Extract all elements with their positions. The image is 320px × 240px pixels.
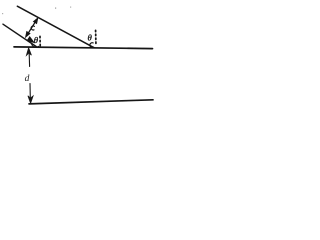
svg-text:d: d [25, 74, 30, 84]
noise speck 2 [70, 7, 71, 8]
arrowhead down of wavefront arrow [26, 32, 30, 37]
surface line S2 (bottom horizontal) [29, 100, 153, 104]
normal N2 (dotted) at right hit point [95, 30, 97, 43]
noise speck 1 [55, 8, 56, 9]
angle arc at right hit point [90, 43, 94, 48]
wavefront double arrow (perpendicular between rays) [27, 21, 36, 35]
dimension arrow d: lower arrowhead [28, 96, 33, 104]
surface line S1 (top horizontal) [14, 47, 153, 49]
angle arc at left hit point [31, 43, 38, 47]
svg-text:θ: θ [88, 32, 93, 42]
arrowhead on ray R1 [27, 37, 34, 42]
svg-text:θ: θ [34, 35, 39, 45]
ray R1 (short incident ray) [3, 24, 36, 46]
small arc mark on wavefront arrow [31, 26, 34, 30]
ray R2 (long incident ray) [17, 6, 94, 48]
arrowhead up of wavefront arrow [34, 18, 38, 23]
normal N1 (dotted) at left hit point [39, 36, 41, 45]
dimension arrow d: upper arrowhead [26, 48, 31, 56]
dimension arrow d: lower shaft [29, 84, 31, 98]
dimension arrow d: upper shaft [28, 54, 30, 67]
noise speck 3 [2, 13, 3, 14]
